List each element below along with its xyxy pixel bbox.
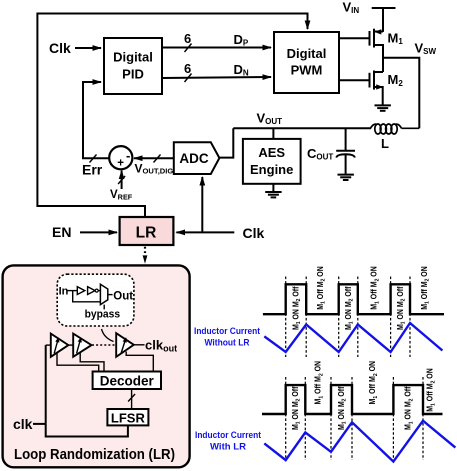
svg-text:M1 Off M2 ON: M1 Off M2 ON (368, 361, 379, 405)
svg-text:-: - (126, 148, 130, 163)
svg-text:Err: Err (82, 162, 103, 178)
svg-text:clk: clk (13, 416, 33, 432)
svg-text:VOUT,DIG: VOUT,DIG (135, 161, 174, 175)
svg-text:Decoder: Decoder (100, 374, 155, 389)
svg-text:COUT: COUT (307, 146, 333, 162)
svg-text:bypass: bypass (85, 308, 121, 320)
svg-text:LFSR: LFSR (111, 411, 146, 426)
svg-text:M1 ON M2 Off: M1 ON M2 Off (292, 286, 303, 330)
svg-text:+: + (117, 158, 124, 170)
svg-text:ADC: ADC (179, 151, 208, 166)
svg-text:VREF: VREF (110, 189, 133, 202)
svg-text:Engine: Engine (250, 162, 293, 177)
svg-text:In: In (59, 285, 69, 297)
svg-text:Out: Out (113, 291, 133, 303)
svg-text:M1 ON M2 Off: M1 ON M2 Off (344, 286, 355, 330)
svg-text:6: 6 (184, 61, 191, 76)
svg-text:M1 ON M2 Off: M1 ON M2 Off (396, 286, 407, 330)
svg-text:M1 Off M2 ON: M1 Off M2 ON (370, 266, 381, 310)
svg-text:M1 ON M2 Off: M1 ON M2 Off (291, 386, 302, 430)
svg-text:PWM: PWM (291, 63, 323, 78)
svg-text:Clk: Clk (243, 225, 265, 241)
svg-text:6: 6 (184, 31, 191, 46)
svg-text:M1 Off M2 ON: M1 Off M2 ON (314, 361, 325, 405)
svg-text:Clk: Clk (49, 40, 71, 56)
svg-text:Digital: Digital (287, 46, 327, 61)
svg-text:DN: DN (234, 62, 249, 78)
svg-text:M1 Off M2 ON: M1 Off M2 ON (316, 266, 327, 310)
svg-text:With LR: With LR (210, 442, 247, 452)
svg-text:AES: AES (258, 145, 285, 160)
svg-text:Loop Randomization (LR): Loop Randomization (LR) (14, 446, 175, 463)
svg-text:M1: M1 (388, 30, 404, 46)
svg-text:M1 ON M2 Off: M1 ON M2 Off (337, 386, 348, 430)
svg-text:VOUT: VOUT (257, 111, 283, 127)
svg-text:EN: EN (52, 224, 71, 240)
svg-text:DP: DP (234, 32, 249, 48)
svg-text:VIN: VIN (343, 0, 360, 15)
svg-text:L: L (381, 136, 389, 151)
svg-text:M1 Off M2 ON: M1 Off M2 ON (426, 368, 437, 412)
svg-text:Inductor Current: Inductor Current (194, 326, 260, 336)
svg-text:Inductor Current: Inductor Current (195, 430, 261, 440)
svg-text:M1 ON M2 Off: M1 ON M2 Off (404, 386, 415, 430)
svg-text:Without LR: Without LR (205, 338, 250, 348)
svg-text:Digital: Digital (113, 49, 153, 64)
svg-text:M1 Off M2 ON: M1 Off M2 ON (420, 266, 431, 310)
svg-text:PID: PID (122, 66, 144, 81)
svg-text:M2: M2 (388, 72, 404, 88)
svg-text:VSW: VSW (415, 41, 437, 57)
svg-text:LR: LR (136, 225, 157, 242)
